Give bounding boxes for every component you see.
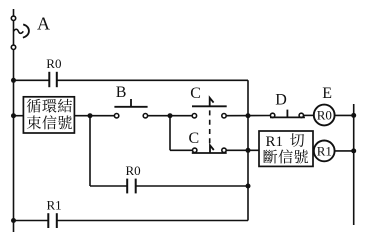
wire: right feed vertical x=248 (247, 80, 249, 220)
svg-text:R0: R0 (126, 163, 141, 178)
wire: right power rail (vertical) (353, 104, 355, 225)
junction: rail / top rung (11, 78, 16, 83)
wire: bottom rung, R1 contact to feed (57, 220, 248, 222)
limit switch contact C (NC, lower) (192, 145, 227, 153)
junction: lower R0 branch / feed vertical (246, 184, 251, 189)
box: cycle-end signal 循環結束信號 (23, 97, 74, 133)
junction: rail / main rung (11, 113, 16, 118)
svg-text:C: C (189, 130, 200, 147)
junction: rail / bottom rung (11, 218, 16, 223)
relay coil R1 (314, 141, 335, 162)
junction: coil R1 / right rail (351, 148, 356, 153)
contact R0 (NO contact, top rung) (49, 72, 57, 87)
junction: lower C branch / feed vertical (246, 148, 251, 153)
wire: top rung, R0 contact to right feed (57, 79, 248, 81)
wire: coil R0 to right rail (334, 114, 353, 116)
junction: main rung / lower R0 branch (88, 113, 93, 118)
wire: top rung, rail to R0 contact (14, 79, 50, 81)
svg-text:R1: R1 (317, 144, 332, 159)
relay coil R0 (314, 105, 335, 126)
wire: contact C2 to R1 signal box (224, 149, 259, 151)
contact R1 (NO contact, bottom rung) (48, 213, 57, 228)
svg-text:A: A (37, 14, 50, 34)
junction: main rung / lower C branch (168, 113, 173, 118)
svg-text:R0: R0 (317, 108, 332, 123)
wire: main rung, signal box to contact B (74, 115, 116, 117)
svg-text:B: B (116, 84, 127, 101)
wire: bottom rung, rail to R1 contact (14, 220, 49, 222)
junction: coil R0 / right rail (351, 113, 356, 118)
switch A (thermal/automatic switch on left rail) (11, 16, 29, 49)
wire: lower R0 branch, left segment (90, 185, 127, 187)
wire: main rung, rail to signal box (14, 115, 24, 117)
contact R0 (NO contact, lower branch) (127, 179, 136, 194)
limit switch contact C (NO, upper) (192, 98, 227, 118)
svg-text:R0: R0 (46, 56, 61, 71)
wire: main rung, contact C to contact D (224, 115, 273, 117)
wire: coil R1 to right rail (334, 150, 353, 152)
pushbutton B (NO momentary contact) (114, 99, 147, 118)
wire: drop from node after B to lower C branch (169, 116, 171, 151)
wire: lower C branch horizontal to contact C2 (170, 149, 195, 151)
wire: lower R0 branch, right segment to feed (136, 185, 248, 187)
wire: left power rail (vertical) (13, 9, 15, 232)
wire: main rung, contact B to contact C (145, 115, 194, 117)
pushbutton D (NC momentary contact) (270, 110, 305, 118)
svg-text:E: E (322, 85, 332, 102)
wire: main rung, contact D to coil R0 (301, 114, 314, 116)
svg-text:C: C (190, 85, 201, 102)
svg-text:R1: R1 (266, 134, 284, 150)
wire: drop from node after box to lower R0 branch (89, 116, 91, 186)
svg-text:D: D (275, 91, 287, 108)
junction: main rung / feed vertical (246, 113, 251, 118)
box: R1 cut-off signal R1切斷信號 (259, 131, 313, 166)
mechanical link between C contacts (dashed) (209, 110, 211, 143)
svg-text:R1: R1 (47, 198, 62, 213)
